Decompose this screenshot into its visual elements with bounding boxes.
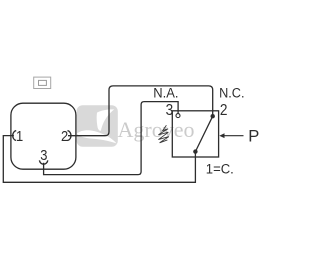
connector icon [34, 77, 51, 88]
svg-text:P: P [248, 127, 259, 146]
svg-text:N.A.: N.A. [153, 85, 178, 100]
contact pin 1 common [193, 149, 197, 153]
contact pin 3 N.A. [176, 114, 180, 118]
pressure switch S1 body [172, 111, 218, 157]
svg-text:Agroveo: Agroveo [118, 117, 195, 142]
switch arm [195, 116, 212, 151]
wire net NA (port3 to pin3) [44, 102, 179, 175]
watermark badge [77, 105, 118, 147]
spring [158, 125, 168, 143]
pressure arrow P [224, 135, 244, 137]
socket 3 [39, 160, 47, 164]
svg-text:2: 2 [220, 102, 228, 119]
svg-text:3: 3 [40, 148, 47, 164]
wire net C (port1 to common) [3, 136, 195, 183]
contact pin 2 N.C. [211, 114, 215, 118]
relay body X1 [11, 103, 76, 169]
svg-text:1=C.: 1=C. [206, 161, 234, 177]
socket 2 [68, 131, 71, 141]
svg-text:N.C.: N.C. [219, 85, 244, 100]
svg-text:2: 2 [61, 129, 68, 145]
socket 1 [13, 131, 16, 141]
svg-text:3: 3 [166, 102, 174, 119]
wire net NC (port2 to pin2) [68, 86, 213, 136]
svg-text:1: 1 [16, 129, 23, 145]
